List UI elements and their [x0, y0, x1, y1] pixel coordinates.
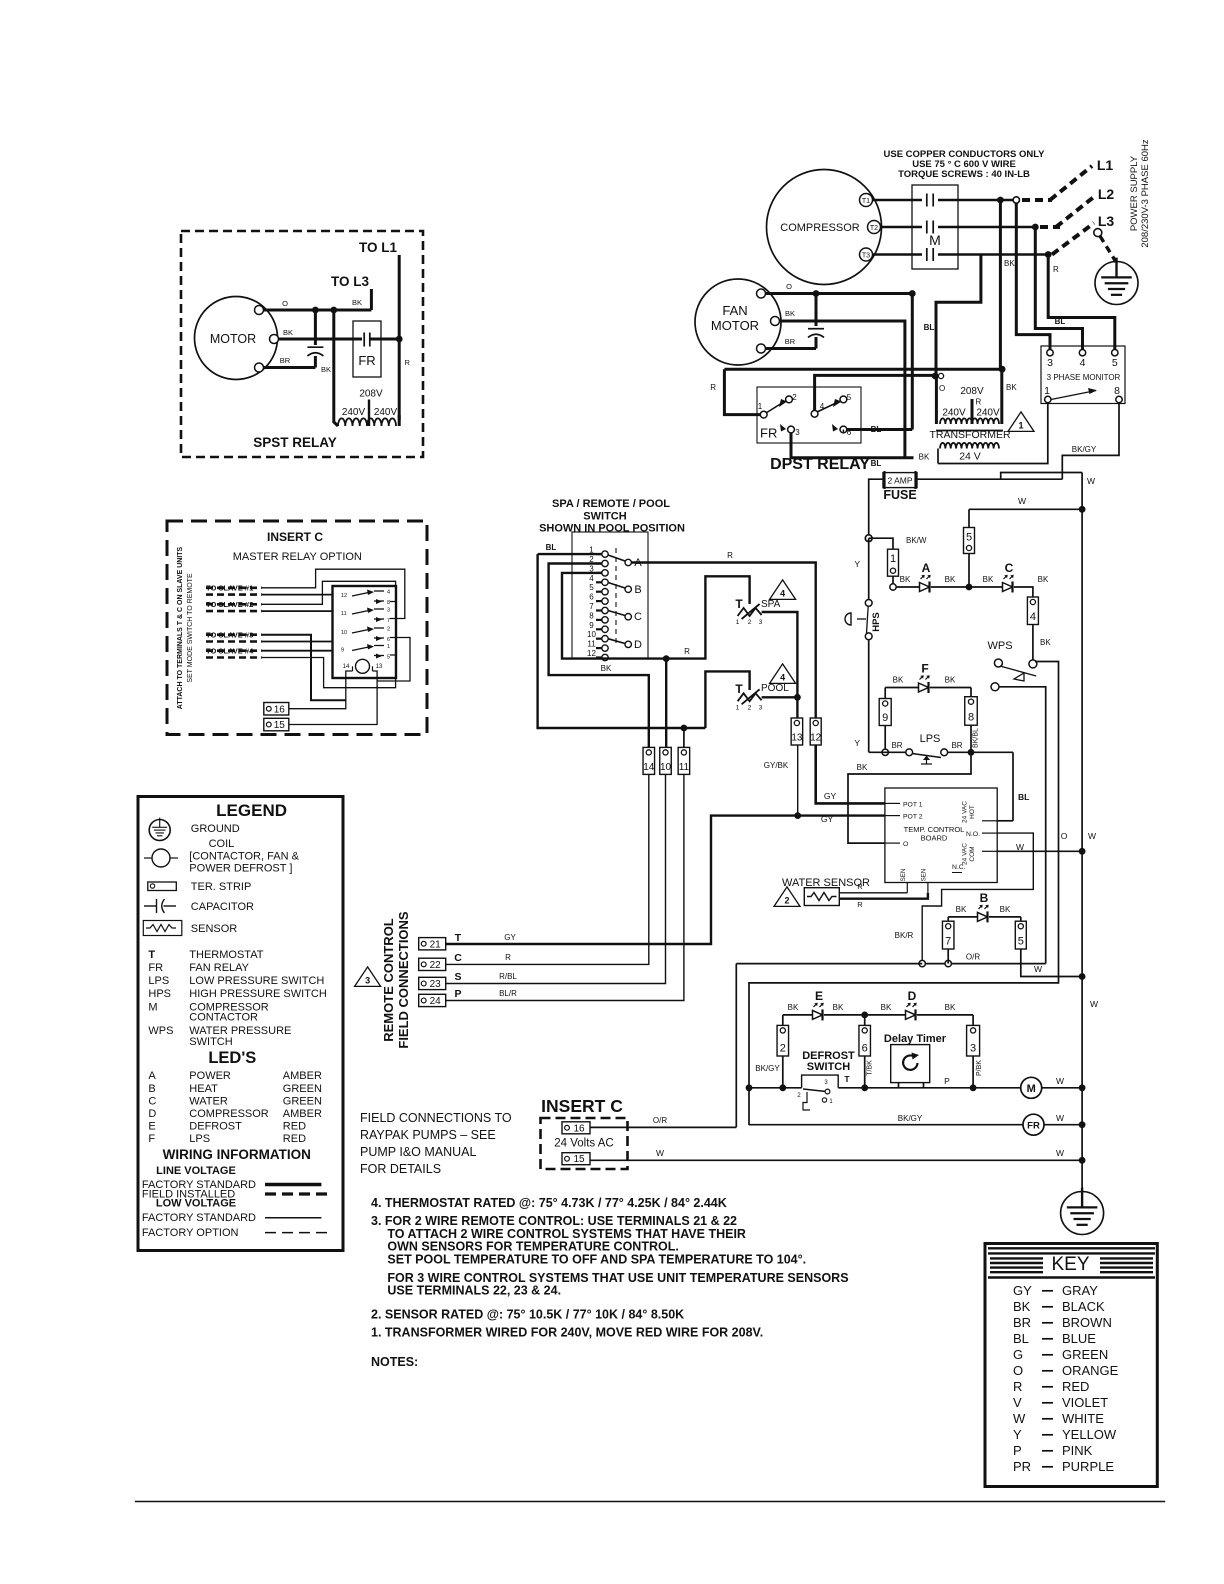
- svg-text:O/R: O/R: [653, 1116, 667, 1125]
- wire master 13 to terminal 15: [289, 671, 377, 725]
- svg-text:FAN RELAY: FAN RELAY: [189, 962, 249, 974]
- svg-text:L1: L1: [1097, 157, 1114, 173]
- 3 phase monitor box: [1041, 346, 1125, 404]
- switch pole A: [625, 559, 631, 565]
- wire TO L1 riser: [398, 255, 401, 420]
- defrost section feed left: [735, 964, 737, 1128]
- svg-text:R: R: [727, 551, 733, 560]
- insert C dashed box: [541, 1118, 628, 1169]
- svg-text:O: O: [939, 384, 945, 393]
- svg-text:2 AMP: 2 AMP: [887, 476, 912, 486]
- contactor M box: [912, 185, 958, 269]
- svg-text:BOARD: BOARD: [921, 834, 948, 843]
- wire 24VAC COM W to rail: [997, 850, 1082, 852]
- svg-text:AMBER: AMBER: [283, 1108, 322, 1120]
- svg-text:1: 1: [890, 553, 896, 565]
- svg-text:1. TRANSFORMER WIRED FOR 240V,: 1. TRANSFORMER WIRED FOR 240V, MOVE RED …: [371, 1326, 763, 1340]
- svg-text:W: W: [1034, 964, 1042, 974]
- svg-text:24: 24: [430, 996, 442, 1007]
- svg-text:BK: BK: [945, 575, 956, 584]
- svg-text:SET POOL TEMPERATURE TO OFF AN: SET POOL TEMPERATURE TO OFF AND SPA TEMP…: [387, 1253, 806, 1267]
- wire junction to terminal 10: [665, 659, 667, 748]
- svg-text:7: 7: [945, 936, 951, 948]
- switch pole B: [625, 586, 631, 592]
- svg-text:FR: FR: [358, 353, 375, 368]
- svg-text:T/BK: T/BK: [867, 1060, 874, 1076]
- svg-text:22: 22: [430, 960, 442, 971]
- svg-text:3: 3: [795, 428, 800, 437]
- svg-text:1: 1: [736, 619, 740, 626]
- wire W rail tap: [1001, 473, 1082, 480]
- junction transformer feed: [932, 373, 939, 380]
- svg-text:8: 8: [589, 611, 594, 620]
- wire terminal 4 to WPS: [1032, 625, 1034, 664]
- svg-text:USE TERMINALS 22, 23 & 24.: USE TERMINALS 22, 23 & 24.: [387, 1284, 561, 1298]
- pin POT2: [885, 815, 900, 817]
- insert C master relay dashed box: [167, 521, 427, 735]
- svg-text:POWER: POWER: [189, 1070, 231, 1082]
- svg-text:BL: BL: [1018, 792, 1029, 802]
- high pressure switch HPS: [865, 600, 872, 607]
- terminal 24: [419, 994, 446, 1006]
- svg-text:PURPLE: PURPLE: [1062, 1459, 1114, 1474]
- DPST contact 4-5: [811, 410, 818, 417]
- svg-text:3: 3: [759, 704, 763, 711]
- svg-text:R: R: [857, 900, 863, 909]
- svg-text:208V: 208V: [359, 389, 383, 400]
- svg-text:BK: BK: [945, 676, 956, 685]
- svg-text:MASTER RELAY OPTION: MASTER RELAY OPTION: [233, 551, 362, 563]
- svg-text:POT 2: POT 2: [903, 814, 923, 821]
- relay coil winding (SPST): [338, 418, 396, 426]
- svg-text:N.C.: N.C.: [952, 864, 966, 871]
- svg-text:BK: BK: [785, 309, 795, 318]
- wire fan BR lead: [765, 347, 816, 350]
- wire terminal 9 to LPS row: [884, 726, 886, 753]
- svg-text:4: 4: [780, 588, 785, 598]
- svg-text:M: M: [929, 232, 941, 248]
- svg-text:LOW VOLTAGE: LOW VOLTAGE: [156, 1198, 236, 1210]
- svg-text:4: 4: [1080, 357, 1086, 369]
- svg-text:BR: BR: [1013, 1315, 1031, 1330]
- terminal strip 5 upper: [964, 528, 975, 554]
- svg-text:D: D: [148, 1108, 156, 1120]
- pin 24VAC COM: [982, 850, 997, 852]
- svg-text:BK: BK: [919, 453, 930, 462]
- svg-text:R: R: [976, 398, 982, 407]
- wire SPA T output: [762, 612, 798, 718]
- svg-text:BK: BK: [352, 298, 362, 307]
- svg-text:13: 13: [376, 664, 383, 670]
- svg-text:P/BK: P/BK: [976, 1060, 983, 1076]
- junction L2: [1032, 224, 1039, 231]
- terminal T1: [860, 194, 873, 207]
- switch pole C: [625, 614, 631, 620]
- svg-text:POT 1: POT 1: [903, 802, 923, 809]
- svg-text:A: A: [148, 1070, 156, 1082]
- terminal 16: [562, 1122, 590, 1134]
- 3PM internal switch: [1051, 391, 1096, 400]
- svg-text:2: 2: [784, 895, 789, 905]
- wire fuse right to BK/GY node: [917, 478, 1062, 480]
- svg-text:BK/GY: BK/GY: [898, 1114, 923, 1123]
- svg-text:BL: BL: [871, 459, 882, 468]
- svg-text:SWITCH: SWITCH: [189, 1036, 232, 1048]
- pin NO: [982, 832, 997, 834]
- svg-text:BK: BK: [956, 905, 967, 914]
- svg-text:W: W: [1056, 1148, 1064, 1158]
- svg-text:BLACK: BLACK: [1062, 1299, 1105, 1314]
- svg-text:8: 8: [1114, 385, 1120, 397]
- svg-text:LPS: LPS: [920, 733, 941, 745]
- svg-text:P: P: [1013, 1443, 1022, 1458]
- svg-text:7: 7: [589, 602, 594, 611]
- svg-text:O: O: [1061, 831, 1068, 841]
- wire BL from T3 to transformer: [936, 255, 981, 377]
- ground lug dashed lead: [1094, 229, 1102, 237]
- svg-text:12: 12: [810, 733, 822, 744]
- svg-text:RED: RED: [283, 1121, 306, 1133]
- svg-text:BR: BR: [785, 337, 796, 346]
- svg-text:BK: BK: [881, 1003, 892, 1012]
- terminal strip 13: [791, 718, 803, 745]
- wire 3PM t3 from T1 phase: [1016, 203, 1050, 350]
- svg-text:3: 3: [365, 975, 370, 985]
- svg-text:2. SENSOR RATED @: 75° 10.5K /: 2. SENSOR RATED @: 75° 10.5K / 77° 10K /…: [371, 1308, 684, 1322]
- fan relay coil FR: [749, 1124, 1023, 1126]
- svg-text:BL: BL: [1013, 1331, 1029, 1346]
- svg-text:O: O: [282, 299, 288, 308]
- wire NO to BK/R drop: [922, 833, 1033, 964]
- svg-text:BK: BK: [1006, 383, 1017, 392]
- svg-text:Y: Y: [1013, 1427, 1022, 1442]
- svg-text:11: 11: [679, 762, 690, 773]
- field wiring dashed to L1: [1022, 198, 1052, 202]
- svg-text:AMBER: AMBER: [283, 1070, 322, 1082]
- svg-text:1: 1: [1018, 420, 1023, 430]
- svg-text:LED'S: LED'S: [208, 1049, 256, 1067]
- svg-text:FAN: FAN: [722, 303, 747, 318]
- svg-text:8: 8: [968, 712, 974, 724]
- svg-text:GRAY: GRAY: [1062, 1283, 1098, 1298]
- ground symbol (low voltage): [1061, 1192, 1104, 1235]
- svg-text:TO L3: TO L3: [331, 274, 370, 289]
- svg-text:BK: BK: [601, 664, 612, 673]
- wire motor BR lead: [263, 366, 315, 369]
- svg-text:CAPACITOR: CAPACITOR: [191, 901, 254, 913]
- svg-text:W: W: [656, 1148, 664, 1158]
- svg-text:240V: 240V: [374, 407, 398, 418]
- svg-text:6: 6: [387, 637, 390, 643]
- svg-text:B: B: [148, 1083, 155, 1095]
- defrost box outline: [749, 662, 1059, 1126]
- svg-text:FIELD CONNECTIONS TO: FIELD CONNECTIONS TO: [360, 1111, 512, 1125]
- wire sensor R to SEN2: [839, 893, 928, 899]
- svg-text:4: 4: [589, 574, 594, 583]
- wire fan O lead: [765, 292, 912, 295]
- terminal 22: [419, 958, 446, 970]
- svg-text:5: 5: [387, 655, 390, 661]
- svg-text:INSERT C: INSERT C: [267, 530, 323, 544]
- wire FR coil to W rail: [1044, 1124, 1082, 1126]
- wire W from terminal 15: [590, 1159, 1082, 1161]
- wire T3 to contactor: [873, 253, 923, 256]
- terminal strip 3: [967, 1025, 980, 1056]
- warning triangle 3: [355, 967, 381, 987]
- LED C: [969, 586, 1002, 588]
- svg-text:TORQUE SCREWS : 40 IN-LB: TORQUE SCREWS : 40 IN-LB: [898, 169, 1030, 180]
- svg-text:M: M: [148, 1002, 157, 1014]
- svg-text:15: 15: [274, 720, 286, 731]
- field wiring dashed to L3: [1052, 223, 1094, 255]
- svg-text:SWITCH: SWITCH: [583, 511, 626, 523]
- svg-text:WHITE: WHITE: [1062, 1411, 1104, 1426]
- wire O/R from insert C: [736, 963, 922, 965]
- svg-text:HPS: HPS: [148, 988, 171, 1000]
- svg-text:240V: 240V: [942, 408, 966, 419]
- svg-text:PINK: PINK: [1062, 1443, 1093, 1458]
- svg-text:[CONTACTOR, FAN &: [CONTACTOR, FAN &: [189, 851, 299, 863]
- svg-text:GREEN: GREEN: [283, 1083, 322, 1095]
- terminal 15 master: [264, 718, 289, 731]
- svg-text:240V: 240V: [342, 407, 366, 418]
- svg-text:BK: BK: [1000, 905, 1011, 914]
- svg-text:LPS: LPS: [189, 1133, 210, 1145]
- svg-text:SPA / REMOTE / POOL: SPA / REMOTE / POOL: [552, 498, 670, 510]
- wire BL into terminal 1: [538, 553, 602, 555]
- svg-text:GY: GY: [824, 791, 837, 801]
- transformer 208V tap: [971, 399, 974, 424]
- svg-text:POWER SUPPLY: POWER SUPPLY: [1129, 155, 1140, 231]
- svg-text:L3: L3: [1098, 213, 1115, 229]
- svg-text:D: D: [908, 989, 917, 1003]
- svg-text:G: G: [1013, 1347, 1023, 1362]
- svg-text:4: 4: [387, 590, 390, 596]
- svg-text:COMPRESSOR: COMPRESSOR: [189, 1108, 269, 1120]
- svg-text:W: W: [1016, 842, 1024, 852]
- svg-text:COM: COM: [969, 846, 976, 861]
- wire 3PM t5 from L3 phase R: [1048, 255, 1115, 350]
- svg-text:F: F: [148, 1133, 155, 1145]
- svg-text:4: 4: [1030, 611, 1036, 623]
- warning triangle 1: [1008, 412, 1034, 432]
- DPST relay box: [757, 387, 861, 443]
- svg-text:5: 5: [1112, 357, 1118, 369]
- svg-text:REMOTE CONTROL: REMOTE CONTROL: [381, 918, 396, 1042]
- terminal T2: [868, 221, 881, 234]
- svg-text:B: B: [980, 891, 989, 905]
- svg-text:15: 15: [573, 1154, 585, 1165]
- svg-text:1: 1: [736, 704, 740, 711]
- svg-text:2: 2: [780, 1043, 786, 1055]
- terminal strip 4: [1027, 597, 1038, 625]
- transformer secondary winding 24V: [940, 443, 999, 449]
- svg-text:GREEN: GREEN: [283, 1096, 322, 1108]
- svg-text:Delay Timer: Delay Timer: [884, 1033, 947, 1045]
- svg-text:BK: BK: [283, 328, 293, 337]
- svg-text:E: E: [815, 989, 823, 1003]
- svg-text:R: R: [405, 358, 411, 367]
- svg-text:BLUE: BLUE: [1062, 1331, 1096, 1346]
- svg-text:GROUND: GROUND: [191, 823, 240, 835]
- svg-text:9: 9: [589, 621, 594, 630]
- svg-text:208V: 208V: [960, 386, 984, 397]
- svg-text:3: 3: [824, 1080, 828, 1086]
- terminal strip 9: [879, 699, 891, 726]
- pin SEN 2: [927, 883, 929, 899]
- svg-text:2: 2: [748, 704, 752, 711]
- svg-text:MOTOR: MOTOR: [210, 332, 256, 346]
- wire GY terminal 12 to POT1: [816, 745, 885, 803]
- wire 3PM t4 from L2 phase BL: [1035, 227, 1082, 350]
- svg-text:T: T: [148, 949, 155, 961]
- svg-text:5: 5: [589, 583, 594, 592]
- svg-text:BK/R: BK/R: [895, 931, 914, 940]
- pin SEN 1: [906, 883, 908, 893]
- wire 3PM t1 to 24V secondary: [938, 403, 1048, 464]
- transformer primary left leg: [935, 376, 938, 424]
- svg-text:BK: BK: [788, 1003, 799, 1012]
- wire BK phase drop to transformer: [999, 200, 1002, 369]
- svg-text:WIRING INFORMATION: WIRING INFORMATION: [163, 1147, 311, 1162]
- transformer primary winding: [940, 418, 999, 424]
- svg-text:W: W: [1056, 1076, 1064, 1086]
- svg-text:7: 7: [387, 618, 390, 624]
- wire terminal 3 loop: [562, 573, 666, 659]
- svg-text:ATTACH TO TERMINALS T & C ON S: ATTACH TO TERMINALS T & C ON SLAVE UNITS: [177, 546, 184, 709]
- svg-text:SET MODE SWITCH TO REMOTE: SET MODE SWITCH TO REMOTE: [187, 573, 194, 683]
- svg-text:B: B: [634, 584, 641, 596]
- legend ground symbol: [149, 820, 170, 841]
- svg-text:RAYPAK PUMPS – SEE: RAYPAK PUMPS – SEE: [360, 1128, 496, 1142]
- svg-text:SEN: SEN: [921, 869, 928, 882]
- wire T2 to contactor: [881, 226, 923, 229]
- master relay coil: [356, 659, 370, 673]
- svg-text:BK/W: BK/W: [906, 536, 927, 545]
- svg-text:T1: T1: [862, 198, 870, 205]
- terminal 23: [419, 977, 446, 989]
- wire HPS to LPS row: [868, 640, 870, 753]
- W rail right side: [1081, 473, 1083, 1193]
- svg-text:R: R: [505, 953, 511, 962]
- svg-text:4: 4: [780, 672, 785, 682]
- svg-text:12: 12: [341, 593, 347, 599]
- svg-text:THERMOSTAT: THERMOSTAT: [189, 949, 263, 961]
- node T1 tap to 3PM: [1013, 197, 1019, 203]
- wire sensor R to SEN1: [839, 892, 907, 894]
- wire 3PM t8 BK/GY to fuse line: [1062, 403, 1119, 480]
- svg-text:A: A: [922, 561, 931, 575]
- legend box: [138, 797, 343, 1251]
- wire O/R bus: [922, 963, 1045, 965]
- svg-text:2: 2: [792, 393, 797, 402]
- LED A: [896, 586, 919, 588]
- wire fan O to DPST contact 6: [911, 294, 914, 430]
- terminal 15: [562, 1153, 590, 1165]
- wire LED A to node5: [931, 586, 969, 588]
- svg-text:SENSOR: SENSOR: [191, 923, 238, 935]
- svg-text:FIELD CONNECTIONS: FIELD CONNECTIONS: [396, 911, 411, 1049]
- wire BL/R terminal 24 to 11: [446, 774, 684, 1000]
- svg-text:10: 10: [587, 630, 596, 639]
- svg-text:2: 2: [748, 619, 752, 626]
- svg-text:CONTACTOR: CONTACTOR: [189, 1012, 258, 1024]
- key header rules: [988, 1247, 1155, 1249]
- svg-text:12: 12: [587, 649, 596, 658]
- terminal strip 2: [777, 1025, 789, 1056]
- svg-text:BK: BK: [833, 1003, 844, 1012]
- svg-text:BK: BK: [1004, 259, 1015, 268]
- wire terminal 5L to W rail: [1021, 949, 1082, 977]
- svg-text:R/BL: R/BL: [499, 972, 517, 981]
- junction Y to terminal 1: [865, 535, 872, 542]
- svg-text:O: O: [1013, 1363, 1023, 1378]
- wire master 14 to terminal 16: [289, 671, 353, 709]
- wire BL LPS to 24VAC HOT: [1012, 752, 1014, 821]
- svg-text:BK/BL: BK/BL: [973, 728, 980, 748]
- svg-text:INSERT C: INSERT C: [541, 1096, 623, 1116]
- wire TO L3 riser: [370, 289, 373, 310]
- DPST contact 3 (NC): [788, 426, 795, 433]
- capacitor C1 (motor run): [314, 310, 317, 345]
- svg-text:BK/GY: BK/GY: [1072, 445, 1097, 454]
- svg-text:N.O.: N.O.: [966, 831, 980, 838]
- svg-text:BR: BR: [891, 741, 902, 750]
- legend terminal strip symbol: [148, 882, 177, 891]
- svg-text:HIGH PRESSURE SWITCH: HIGH PRESSURE SWITCH: [189, 988, 327, 1000]
- svg-text:SPA: SPA: [761, 599, 781, 610]
- DPST contact 6 (NC): [840, 426, 847, 433]
- svg-text:9: 9: [882, 712, 888, 724]
- pin O: [885, 842, 900, 844]
- wire DPST contact 4 to transformer: [815, 375, 936, 410]
- svg-text:O: O: [786, 282, 792, 291]
- svg-text:NOTES:: NOTES:: [371, 1355, 418, 1369]
- svg-text:LINE VOLTAGE: LINE VOLTAGE: [156, 1165, 236, 1177]
- svg-text:BR: BR: [951, 741, 962, 750]
- svg-text:GY: GY: [821, 814, 834, 824]
- pin 24VAC HOT: [982, 820, 997, 822]
- svg-text:3: 3: [970, 1043, 976, 1055]
- svg-text:W: W: [1018, 496, 1026, 506]
- svg-text:3: 3: [387, 608, 390, 614]
- terminal strip 12: [810, 718, 821, 745]
- compressor contactor coil M: [1021, 1077, 1042, 1098]
- svg-text:LPS: LPS: [148, 975, 169, 987]
- terminal strip 8: [965, 697, 978, 726]
- svg-text:SPST RELAY: SPST RELAY: [253, 435, 337, 450]
- svg-text:WPS: WPS: [987, 640, 1012, 652]
- warning triangle 2: [774, 887, 800, 907]
- wire R/BL terminal 23 to 10: [446, 774, 666, 983]
- ground symbol (power supply): [1095, 262, 1138, 305]
- svg-text:BK: BK: [893, 676, 904, 685]
- svg-text:2: 2: [387, 627, 390, 633]
- svg-text:240V: 240V: [976, 408, 1000, 419]
- svg-text:RED: RED: [283, 1133, 306, 1145]
- svg-text:6: 6: [589, 593, 594, 602]
- capacitor C2 (fan): [815, 294, 818, 327]
- svg-text:GREEN: GREEN: [1062, 1347, 1108, 1362]
- svg-text:YELLOW: YELLOW: [1062, 1427, 1117, 1442]
- svg-text:C: C: [454, 952, 462, 964]
- wire terminal1 to LED A row: [892, 576, 894, 587]
- delay timer pins: [898, 1083, 900, 1088]
- svg-text:BROWN: BROWN: [1062, 1315, 1112, 1330]
- legend capacitor symbol: [144, 905, 157, 907]
- svg-text:HPS: HPS: [871, 612, 882, 632]
- terminal strip 6: [859, 1025, 871, 1056]
